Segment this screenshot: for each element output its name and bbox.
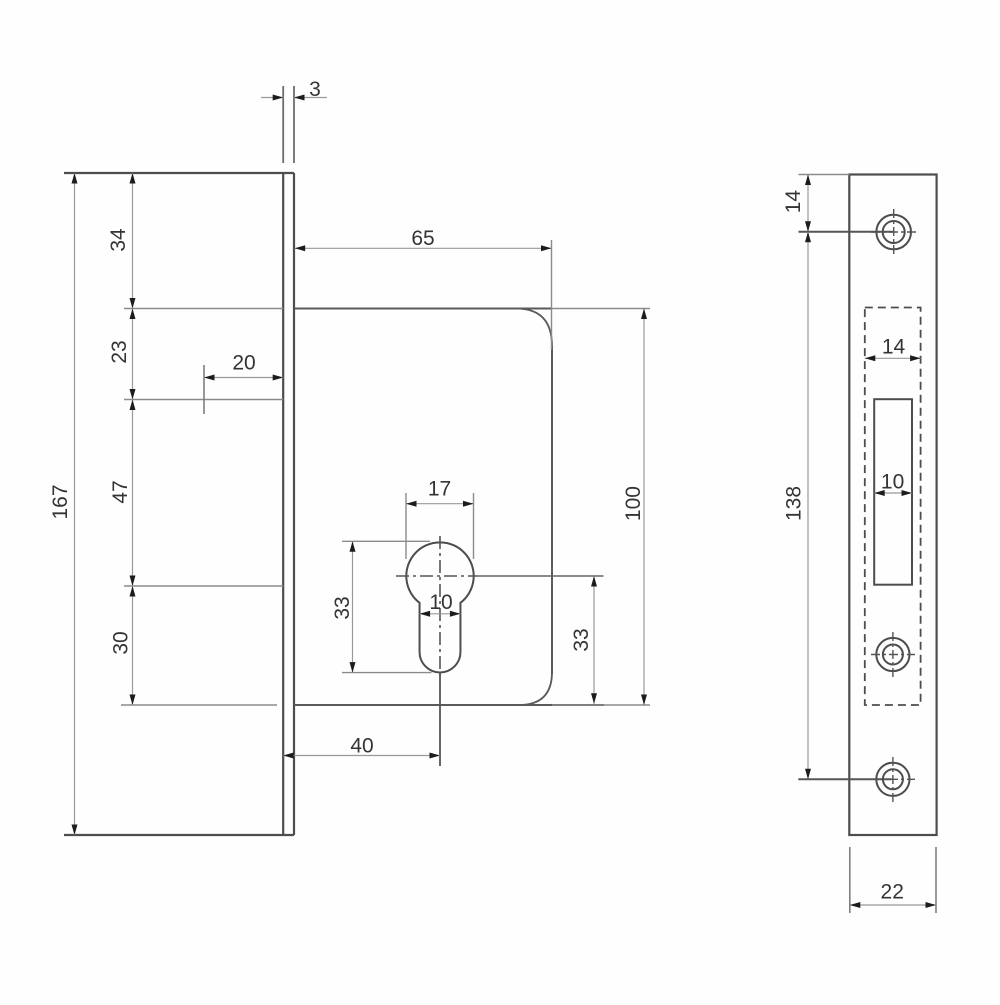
dimension 167 line and arrows	[72, 173, 78, 835]
dimension 3 line and arrows	[261, 95, 327, 101]
front faceplate outline	[849, 175, 936, 836]
dimension 138 label	[783, 486, 806, 521]
middle screw hole	[876, 638, 909, 671]
extension line at 34 boundary / body top	[124, 308, 650, 310]
cylinder vertical centerline	[439, 536, 441, 678]
dimension 34 label	[107, 228, 130, 252]
svg-text:34: 34	[107, 228, 130, 252]
extension line from cylinder centre to right 33 dimension	[478, 575, 604, 577]
svg-text:3: 3	[309, 78, 321, 101]
euro cylinder profile	[406, 542, 473, 672]
dimension 65 label	[411, 227, 434, 250]
left dimension 33 extension lines	[342, 541, 432, 672]
dimension 14 top line and arrows	[805, 175, 811, 232]
left dimension 33 label	[331, 596, 354, 619]
cylinder dimension 10 line and arrows	[420, 611, 461, 617]
leader line to top screw hole	[799, 231, 894, 233]
svg-text:22: 22	[881, 881, 904, 904]
svg-text:33: 33	[331, 596, 354, 619]
dimension 40 line and arrows	[283, 753, 440, 759]
svg-text:17: 17	[428, 478, 451, 501]
dimension 22 extension lines	[850, 847, 936, 913]
dimension 20 extension line	[203, 365, 205, 414]
front faceplate top extension line	[799, 174, 850, 176]
svg-text:65: 65	[411, 227, 434, 250]
lock body bottom edge	[294, 704, 604, 706]
svg-text:10: 10	[881, 471, 904, 494]
dimension 100 label	[622, 486, 645, 521]
dimension 20 line and arrows	[204, 375, 283, 381]
dimension 14 top label	[782, 190, 805, 214]
dimension 10 latch label	[881, 471, 904, 494]
svg-text:14: 14	[782, 190, 805, 214]
dimension 100 line and arrows	[641, 309, 647, 706]
svg-text:138: 138	[783, 486, 806, 521]
lock body top-right corner arc	[516, 309, 552, 347]
cylinder horizontal centerline	[396, 575, 478, 577]
svg-text:33: 33	[570, 628, 593, 651]
faceplate side view bottom edge with extension	[64, 834, 294, 836]
leader line to bottom screw hole	[798, 778, 891, 780]
right dimension 33 label	[570, 628, 593, 651]
lock body bottom-right corner arc	[519, 672, 552, 705]
cylinder dimension 10 label	[429, 591, 452, 614]
dimension 10 latch line and arrows	[874, 490, 912, 496]
top screw hole	[876, 215, 911, 250]
dimension 17 extension lines	[406, 493, 474, 559]
bottom screw hole	[876, 763, 909, 796]
dimension 17 line and arrows	[406, 501, 474, 507]
svg-text:47: 47	[109, 480, 132, 503]
latch hole outline	[874, 399, 912, 585]
svg-text:10: 10	[429, 591, 452, 614]
right dimension 33 line and arrows	[591, 576, 597, 704]
dimension 65 extension line	[551, 240, 553, 350]
dimension 47 label	[109, 480, 132, 503]
dimension 23 label	[108, 340, 131, 363]
dimension 138 line and arrows	[805, 232, 811, 780]
lock body right edge	[551, 346, 553, 674]
svg-text:14: 14	[882, 336, 906, 359]
svg-text:23: 23	[108, 340, 131, 363]
dimension 40 label	[350, 735, 373, 758]
svg-text:100: 100	[622, 486, 645, 521]
dimension 65 line and arrows	[295, 245, 552, 251]
dimension 14 latch label	[882, 336, 906, 359]
top screw hole crosshair	[871, 209, 917, 255]
centerline below cylinder for 40 dimension	[439, 673, 441, 767]
middle screw hole crosshair	[871, 632, 915, 677]
dimension 3 extension lines	[283, 86, 294, 163]
svg-text:20: 20	[232, 352, 255, 375]
dimension 14 latch line and arrows	[865, 355, 921, 361]
dimension 22 label	[881, 881, 904, 904]
svg-text:167: 167	[49, 484, 72, 519]
dimension 167 label	[49, 484, 72, 519]
chain dimension line 34/23/47/30	[130, 173, 136, 705]
faceplate side view top edge with extension	[64, 172, 294, 174]
bottom screw hole crosshair	[871, 757, 915, 802]
svg-text:40: 40	[350, 735, 373, 758]
dimension 17 label	[428, 478, 451, 501]
faceplate side view left edge	[282, 173, 284, 835]
extension line at 23 boundary	[124, 399, 283, 401]
lock body top edge	[294, 308, 552, 310]
dimension 30 label	[110, 631, 133, 654]
dimension 22 line and arrows	[850, 902, 936, 908]
dimension 20 label	[232, 352, 255, 375]
extension line at 47 boundary	[124, 585, 283, 587]
svg-text:30: 30	[110, 631, 133, 654]
latch pocket dashed outline	[865, 308, 921, 706]
extension line at 30 boundary / body bottom extension	[121, 704, 650, 706]
faceplate side view right edge	[293, 173, 295, 835]
dimension 3 label	[309, 78, 321, 101]
left dimension 33 line and arrows	[350, 541, 356, 672]
